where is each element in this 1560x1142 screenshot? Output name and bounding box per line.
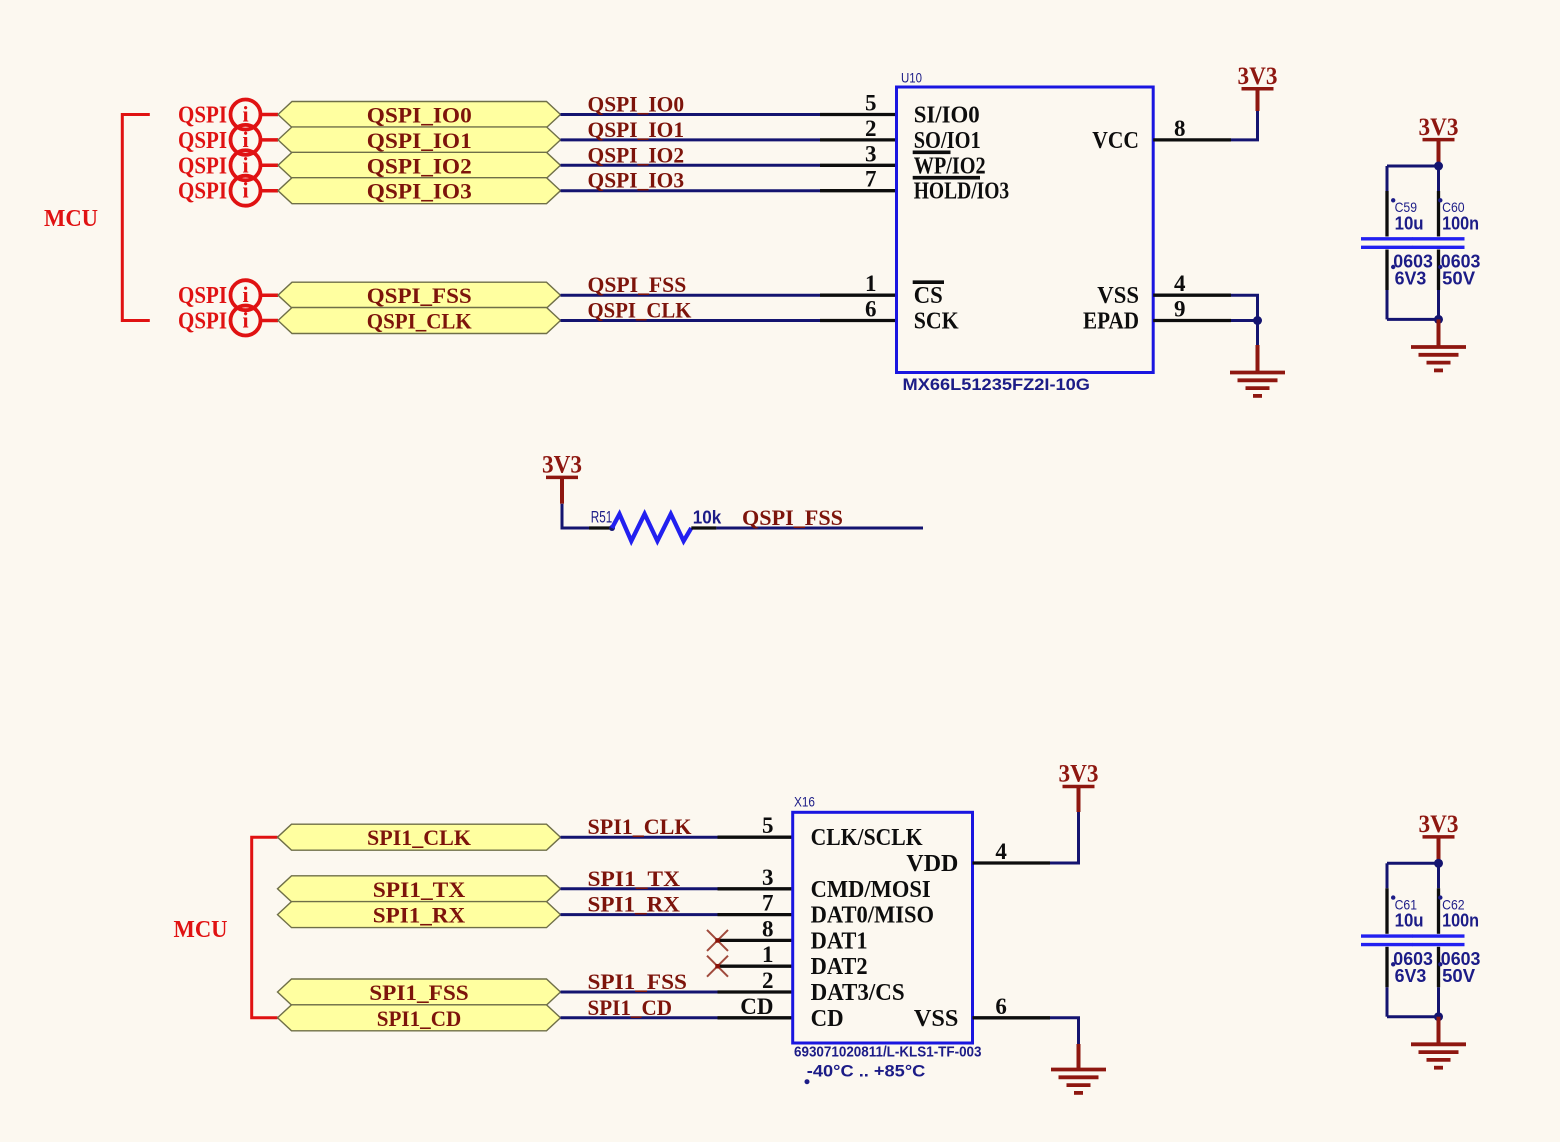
svg-text:EPAD: EPAD bbox=[1083, 309, 1139, 335]
svg-text:6V3: 6V3 bbox=[1395, 269, 1427, 289]
svg-text:9: 9 bbox=[1174, 297, 1186, 322]
svg-text:SPI1_CD: SPI1_CD bbox=[377, 1006, 462, 1031]
svg-text:2: 2 bbox=[762, 968, 774, 993]
svg-text:2: 2 bbox=[865, 116, 877, 141]
svg-text:3: 3 bbox=[762, 865, 774, 890]
svg-text:QSPI_IO0: QSPI_IO0 bbox=[367, 103, 472, 128]
svg-text:i: i bbox=[242, 178, 248, 203]
svg-text:CS: CS bbox=[914, 283, 943, 309]
svg-text:3V3: 3V3 bbox=[1238, 63, 1278, 90]
svg-text:4: 4 bbox=[995, 839, 1007, 864]
svg-text:i: i bbox=[242, 308, 248, 333]
svg-text:SI/IO0: SI/IO0 bbox=[914, 103, 980, 129]
svg-text:SPI1_TX: SPI1_TX bbox=[588, 866, 681, 891]
svg-text:HOLD/IO3: HOLD/IO3 bbox=[914, 179, 1010, 205]
svg-text:VSS: VSS bbox=[1097, 283, 1139, 309]
svg-text:7: 7 bbox=[865, 167, 877, 192]
svg-text:8: 8 bbox=[1174, 116, 1186, 141]
svg-text:VCC: VCC bbox=[1092, 128, 1139, 154]
svg-text:DAT3/CS: DAT3/CS bbox=[811, 980, 905, 1006]
svg-text:QSPI: QSPI bbox=[178, 103, 227, 129]
svg-text:1: 1 bbox=[865, 271, 877, 296]
svg-text:CMD/MOSI: CMD/MOSI bbox=[811, 877, 931, 903]
svg-text:7: 7 bbox=[762, 891, 774, 916]
svg-text:QSPI: QSPI bbox=[178, 153, 227, 179]
svg-text:SPI1_CLK: SPI1_CLK bbox=[367, 825, 471, 850]
svg-text:MX66L51235FZ2I-10G: MX66L51235FZ2I-10G bbox=[903, 375, 1091, 394]
svg-text:SPI1_RX: SPI1_RX bbox=[588, 892, 681, 917]
svg-text:CD: CD bbox=[811, 1006, 844, 1032]
svg-text:QSPI_CLK: QSPI_CLK bbox=[588, 298, 692, 323]
svg-text:CLK/SCLK: CLK/SCLK bbox=[811, 825, 923, 851]
svg-text:10u: 10u bbox=[1395, 911, 1424, 931]
svg-text:QSPI: QSPI bbox=[178, 283, 227, 309]
svg-text:3: 3 bbox=[865, 141, 877, 166]
svg-text:WP/IO2: WP/IO2 bbox=[914, 153, 986, 179]
svg-text:3V3: 3V3 bbox=[542, 452, 582, 479]
svg-text:QSPI_IO2: QSPI_IO2 bbox=[588, 142, 685, 167]
svg-text:MCU: MCU bbox=[174, 917, 228, 943]
svg-text:50V: 50V bbox=[1442, 269, 1475, 289]
svg-text:4: 4 bbox=[1174, 271, 1186, 296]
svg-text:QSPI_IO3: QSPI_IO3 bbox=[588, 168, 685, 193]
svg-text:SO/IO1: SO/IO1 bbox=[914, 128, 981, 154]
svg-text:QSPI_FSS: QSPI_FSS bbox=[742, 505, 843, 530]
svg-text:3V3: 3V3 bbox=[1059, 761, 1099, 788]
svg-text:5: 5 bbox=[762, 813, 774, 838]
svg-text:QSPI: QSPI bbox=[178, 309, 227, 335]
svg-text:VSS: VSS bbox=[914, 1006, 959, 1032]
svg-text:6: 6 bbox=[995, 994, 1007, 1019]
svg-text:VDD: VDD bbox=[906, 851, 958, 877]
svg-text:MCU: MCU bbox=[44, 206, 98, 232]
svg-text:1: 1 bbox=[762, 942, 774, 967]
svg-text:U10: U10 bbox=[901, 70, 922, 86]
svg-text:SPI1_CD: SPI1_CD bbox=[588, 995, 673, 1020]
svg-text:QSPI_IO1: QSPI_IO1 bbox=[367, 128, 472, 153]
svg-text:10k: 10k bbox=[693, 508, 722, 528]
svg-text:QSPI_IO0: QSPI_IO0 bbox=[588, 92, 685, 117]
svg-text:3V3: 3V3 bbox=[1419, 811, 1459, 838]
svg-text:SPI1_FSS: SPI1_FSS bbox=[369, 980, 469, 1005]
svg-text:DAT2: DAT2 bbox=[811, 954, 868, 980]
svg-text:SPI1_FSS: SPI1_FSS bbox=[588, 969, 688, 994]
svg-text:100n: 100n bbox=[1442, 911, 1479, 931]
svg-text:i: i bbox=[242, 282, 248, 307]
svg-text:X16: X16 bbox=[794, 794, 815, 810]
svg-text:8: 8 bbox=[762, 916, 774, 941]
svg-text:100n: 100n bbox=[1442, 213, 1479, 233]
svg-text:10u: 10u bbox=[1395, 213, 1424, 233]
svg-text:i: i bbox=[242, 152, 248, 177]
svg-text:50V: 50V bbox=[1442, 966, 1475, 986]
svg-text:QSPI_IO1: QSPI_IO1 bbox=[588, 117, 685, 142]
svg-text:693071020811/L-KLS1-TF-003: 693071020811/L-KLS1-TF-003 bbox=[794, 1043, 982, 1060]
svg-text:i: i bbox=[242, 127, 248, 152]
svg-text:QSPI: QSPI bbox=[178, 179, 227, 205]
svg-text:QSPI_IO2: QSPI_IO2 bbox=[367, 153, 472, 178]
svg-text:QSPI_IO3: QSPI_IO3 bbox=[367, 179, 472, 204]
svg-text:QSPI: QSPI bbox=[178, 128, 227, 154]
svg-text:-40°C .. +85°C: -40°C .. +85°C bbox=[807, 1062, 926, 1081]
svg-text:CD: CD bbox=[740, 994, 773, 1019]
svg-text:DAT0/MISO: DAT0/MISO bbox=[811, 903, 935, 929]
svg-text:QSPI_CLK: QSPI_CLK bbox=[367, 309, 472, 334]
svg-text:5: 5 bbox=[865, 91, 877, 116]
svg-text:SPI1_CLK: SPI1_CLK bbox=[588, 814, 692, 839]
svg-text:3V3: 3V3 bbox=[1419, 114, 1459, 141]
svg-text:QSPI_FSS: QSPI_FSS bbox=[367, 283, 472, 308]
svg-text:R51: R51 bbox=[591, 508, 613, 527]
svg-text:SPI1_TX: SPI1_TX bbox=[373, 877, 466, 902]
svg-text:6V3: 6V3 bbox=[1395, 966, 1427, 986]
svg-text:SCK: SCK bbox=[914, 309, 959, 335]
svg-text:DAT1: DAT1 bbox=[811, 928, 868, 954]
svg-text:SPI1_RX: SPI1_RX bbox=[373, 903, 466, 928]
svg-text:i: i bbox=[242, 102, 248, 127]
svg-text:QSPI_FSS: QSPI_FSS bbox=[588, 272, 687, 297]
svg-text:6: 6 bbox=[865, 297, 877, 322]
